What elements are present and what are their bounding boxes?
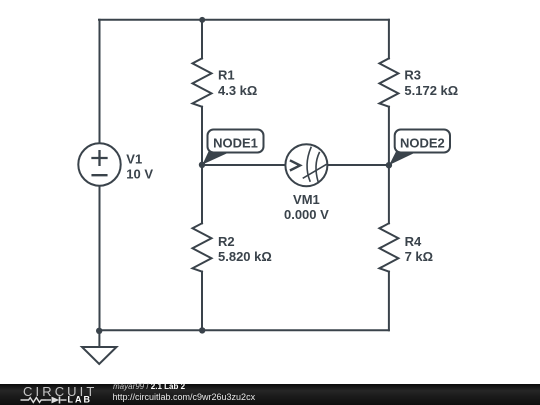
resistor R4 7 kOhm zigzag bbox=[379, 223, 398, 271]
footer url line bbox=[113, 392, 256, 402]
V1 minus sign bbox=[93, 174, 107, 176]
svg-text:V1: V1 bbox=[126, 151, 142, 166]
CircuitLab logo bbox=[0, 384, 110, 405]
wire R4 bottom lead bbox=[388, 272, 390, 331]
svg-text:VM1: VM1 bbox=[293, 192, 320, 207]
svg-text:7 kΩ: 7 kΩ bbox=[405, 249, 434, 264]
svg-text:R1: R1 bbox=[218, 67, 235, 82]
VM1 needle bbox=[303, 165, 325, 178]
junction node NODE1 dot bbox=[199, 162, 205, 168]
wire R2 bottom lead bbox=[201, 272, 203, 331]
junction dot top rail R1 bbox=[199, 17, 205, 23]
voltmeter VM1 circle bbox=[285, 144, 327, 186]
svg-text:4.3 kΩ: 4.3 kΩ bbox=[218, 83, 257, 98]
wire left vertical lower (V1 to bottom rail) bbox=[99, 186, 101, 331]
footer bar bbox=[0, 384, 540, 405]
V1 plus sign bbox=[93, 151, 107, 165]
wire R2 top lead from NODE1 bbox=[201, 165, 203, 223]
node NODE1 callout box bbox=[208, 130, 264, 153]
wire R3 top lead bbox=[388, 20, 390, 59]
voltage source V1 circle bbox=[78, 143, 120, 185]
wire bottom horizontal bbox=[99, 329, 389, 331]
svg-text:5.172 kΩ: 5.172 kΩ bbox=[404, 83, 458, 98]
svg-text:R3: R3 bbox=[404, 67, 421, 82]
resistor R1 4.3 kOhm zigzag bbox=[193, 58, 212, 106]
node NODE1 callout tail bbox=[203, 152, 232, 165]
wire voltmeter to NODE2 bbox=[327, 164, 389, 166]
svg-text:5.820 kΩ: 5.820 kΩ bbox=[218, 249, 272, 264]
svg-text:R2: R2 bbox=[218, 234, 235, 249]
svg-text:NODE1: NODE1 bbox=[213, 136, 258, 151]
VM1 meter arc 2 bbox=[316, 153, 319, 182]
junction node NODE2 dot bbox=[386, 162, 392, 168]
resistor R2 5.820 kOhm zigzag bbox=[193, 223, 212, 271]
logo resistor+diode symbol bbox=[21, 397, 67, 404]
svg-text:NODE2: NODE2 bbox=[400, 136, 445, 151]
footer title line bbox=[113, 382, 185, 391]
ground symbol bbox=[82, 330, 117, 364]
wire R3 bottom lead to NODE2 bbox=[388, 107, 390, 165]
wire left vertical upper (V1 to top rail) bbox=[99, 20, 101, 144]
wire R1 bottom lead to NODE1 bbox=[201, 107, 203, 165]
wire R1 top lead bbox=[201, 20, 203, 59]
junction dot bottom rail R2 bbox=[199, 327, 205, 333]
node NODE2 callout box bbox=[395, 130, 450, 153]
node NODE2 callout tail bbox=[389, 152, 417, 166]
resistor R3 5.172 kOhm zigzag bbox=[379, 58, 398, 106]
svg-text:0.000 V: 0.000 V bbox=[284, 207, 329, 222]
svg-text:R4: R4 bbox=[405, 234, 422, 249]
junction dot ground bbox=[96, 328, 102, 334]
VM1 chevron bbox=[290, 160, 300, 170]
svg-text:10 V: 10 V bbox=[126, 166, 153, 181]
VM1 meter arc 1 bbox=[307, 147, 311, 181]
svg-text:LAB: LAB bbox=[68, 395, 93, 405]
wire NODE1 to voltmeter bbox=[202, 164, 285, 166]
wire top horizontal bbox=[99, 19, 389, 21]
wire R4 top lead from NODE2 bbox=[388, 165, 390, 223]
